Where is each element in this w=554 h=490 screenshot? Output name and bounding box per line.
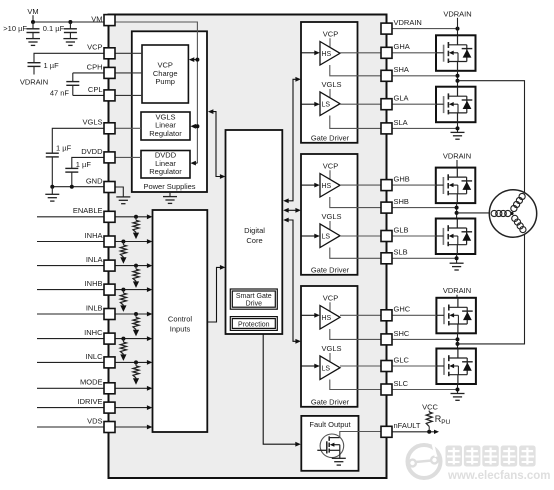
block Gate Driver C <box>301 286 358 407</box>
wire INLC external stub <box>37 361 104 363</box>
wire VM feed to regulators <box>115 22 199 166</box>
label INHA <box>85 231 103 240</box>
wire IDRIVE external stub <box>37 407 104 409</box>
label INHB <box>85 279 103 288</box>
label GLC <box>394 355 410 364</box>
svg-text:SHB: SHB <box>394 197 409 206</box>
svg-text:VM: VM <box>91 15 102 24</box>
label GHB <box>394 175 410 184</box>
label CPH <box>87 62 103 71</box>
wire Digital Core to Fault Output <box>263 334 301 447</box>
wire VGLS stub B <box>329 221 331 230</box>
wire INHC to Control Inputs <box>115 336 152 341</box>
svg-text:SHC: SHC <box>394 329 410 338</box>
wire VCP pin to charge pump <box>115 52 142 54</box>
label VGLS in driver C <box>321 344 341 353</box>
node phase C junction <box>456 333 460 348</box>
watermark elecfans logo and text <box>408 445 551 483</box>
wire HS output to GC <box>340 314 386 316</box>
svg-text:INHA: INHA <box>85 231 103 240</box>
svg-text:GND: GND <box>86 176 103 185</box>
wire VCP stub B <box>329 170 331 180</box>
wire SHA pin to phase A node <box>392 75 458 77</box>
pin INHC <box>104 333 115 344</box>
ground phase B low FET <box>450 254 464 270</box>
svg-text:1 µF: 1 µF <box>76 160 92 169</box>
pin nFAULT <box>381 426 392 437</box>
svg-text:GHB: GHB <box>394 175 410 184</box>
wire SHB pin to phase B node <box>392 207 457 209</box>
wire LS source to SC <box>330 380 386 390</box>
ground phase A low FET <box>451 122 465 139</box>
node phase B junction <box>455 203 459 218</box>
svg-text:VCP: VCP <box>87 43 102 52</box>
wire Control Inputs to Digital Core <box>207 265 225 322</box>
wire nFAULT external <box>392 430 439 434</box>
svg-text:GLC: GLC <box>394 355 410 364</box>
label Gate Driver A <box>311 133 350 142</box>
pin SHC <box>381 334 392 345</box>
svg-text:Fault Output: Fault Output <box>309 420 351 429</box>
svg-text:www.elecfans.com: www.elecfans.com <box>447 470 550 482</box>
pin CPH <box>104 67 115 78</box>
wire VCP stub A <box>329 38 331 48</box>
ground below 0.1 uF cap <box>63 39 77 46</box>
svg-text:VDS: VDS <box>87 416 102 425</box>
svg-text:GHC: GHC <box>394 305 411 314</box>
label GLA <box>394 94 409 103</box>
resistor RPU pull-up <box>426 411 450 432</box>
label nFAULT <box>394 421 421 430</box>
label VCP <box>87 43 102 52</box>
label Gate Driver B <box>311 265 350 274</box>
svg-text:Digital: Digital <box>244 226 265 235</box>
wire INLC to Control Inputs <box>115 360 152 365</box>
svg-text:VGLS: VGLS <box>82 118 102 127</box>
buffer LS A <box>320 92 340 116</box>
wire VDRAIN drop phase B <box>456 160 458 168</box>
wire INHB to Control Inputs <box>115 287 152 292</box>
label DVDD <box>81 147 103 156</box>
label VGLS <box>82 118 102 127</box>
svg-text:IDRIVE: IDRIVE <box>77 397 102 406</box>
svg-text:LS: LS <box>322 366 331 373</box>
label ENABLE <box>73 206 103 215</box>
label VDS <box>87 416 102 425</box>
label VM <box>91 15 102 24</box>
pin MODE <box>104 383 115 394</box>
wire INHA to Control Inputs <box>115 239 152 244</box>
pin INHB <box>104 284 115 295</box>
wire LS input C <box>301 364 320 369</box>
transistor external FET A high-side <box>436 35 476 71</box>
pin VDRAIN <box>381 23 392 34</box>
label CPL <box>88 85 103 94</box>
svg-text:VCP: VCP <box>323 161 338 170</box>
label VDRAIN <box>394 18 422 27</box>
pin GHA <box>381 47 392 58</box>
node VDRAIN label below VCP cap <box>20 78 48 87</box>
svg-text:Regulator: Regulator <box>149 129 182 138</box>
buffer LS C <box>320 356 340 380</box>
pin IDRIVE <box>104 402 115 413</box>
motor three-phase BLDC <box>489 190 536 237</box>
block VCP Charge Pump <box>142 45 188 103</box>
svg-text:MODE: MODE <box>80 378 103 387</box>
svg-text:VGLS: VGLS <box>321 344 341 353</box>
buffer HS C <box>320 306 340 330</box>
label SLB <box>394 248 408 257</box>
svg-text:VGLS: VGLS <box>321 212 341 221</box>
label VDRAIN phase C <box>443 286 471 295</box>
transistor external FET C high-side <box>436 298 476 334</box>
IC body outline <box>109 15 387 479</box>
wire MODE external stub <box>37 387 104 389</box>
svg-text:VGLS: VGLS <box>321 80 341 89</box>
pin INLC <box>104 357 115 368</box>
wire GND external <box>50 185 104 189</box>
label INLC <box>85 352 103 361</box>
svg-text:INLB: INLB <box>86 303 103 312</box>
pin VCP <box>104 48 115 59</box>
capacitor 47 nF between CPH and CPL <box>50 73 79 97</box>
wire HS output to GB <box>340 184 386 186</box>
label GLB <box>394 225 409 234</box>
wire HS output to GA <box>340 52 386 54</box>
wire CPL external <box>73 94 104 96</box>
svg-text:CPH: CPH <box>87 62 103 71</box>
wire LS input A <box>301 102 320 107</box>
wire SHC pin to phase C node <box>392 338 458 340</box>
pin SLC <box>381 384 392 395</box>
svg-text:Pump: Pump <box>155 77 175 86</box>
svg-text:nFAULT: nFAULT <box>394 421 421 430</box>
wire INLB external stub <box>37 313 104 315</box>
svg-text:Power Supplies: Power Supplies <box>143 182 195 191</box>
wire VGLS stub C <box>329 353 331 362</box>
wire INLA external stub <box>37 265 104 267</box>
svg-text:INLC: INLC <box>85 352 103 361</box>
svg-text:LS: LS <box>322 234 331 241</box>
resistor pulldown on INHA <box>120 240 126 264</box>
label Gate Driver C <box>311 397 350 406</box>
svg-text:GLA: GLA <box>394 94 409 103</box>
wire HS source to SC <box>330 329 386 339</box>
svg-text:VDRAIN: VDRAIN <box>443 286 471 295</box>
resistor pulldown on INLC <box>133 360 139 384</box>
block Protection <box>230 317 277 331</box>
wire GLA pin to FET <box>392 103 436 105</box>
label INHC <box>84 328 103 337</box>
svg-text:HS: HS <box>322 315 332 322</box>
wire GHC pin to FET <box>392 314 436 316</box>
wire ENABLE to Control Inputs <box>115 214 152 219</box>
svg-text:VCP: VCP <box>323 29 338 38</box>
ground inside IC at GND pin <box>115 187 130 204</box>
wire DVDD external <box>72 157 104 168</box>
wire phase C to motor <box>458 234 525 344</box>
label VGLS in driver B <box>321 212 341 221</box>
wire DVDD pin to regulator <box>115 156 141 158</box>
label VDRAIN phase B <box>443 152 471 161</box>
svg-text:Gate Driver: Gate Driver <box>311 397 350 406</box>
svg-text:SLA: SLA <box>394 118 408 127</box>
label SLC <box>394 379 409 388</box>
svg-text:Protection: Protection <box>238 322 270 329</box>
wire HS source to SA <box>330 65 386 76</box>
wire VDRAIN drop phase A <box>457 18 459 36</box>
wire GHB pin to FET <box>392 184 436 186</box>
transistor open-drain MOSFET in Fault Output <box>317 432 386 466</box>
svg-text:Control: Control <box>168 314 193 323</box>
label INLA <box>86 255 103 264</box>
svg-text:Gate Driver: Gate Driver <box>311 265 350 274</box>
pin INHA <box>104 236 115 247</box>
svg-text:SHA: SHA <box>394 65 409 74</box>
svg-text:>10 µF: >10 µF <box>3 24 27 33</box>
block Control Inputs <box>153 210 208 432</box>
label VCC <box>422 402 438 411</box>
block DVDD Linear Regulator <box>141 151 190 179</box>
svg-text:VDRAIN: VDRAIN <box>20 78 48 87</box>
pin INLA <box>104 260 115 271</box>
label MODE <box>80 378 103 387</box>
wire VDRAIN pin to FET A <box>392 27 460 31</box>
pin ENABLE <box>104 211 115 222</box>
svg-text:1 µF: 1 µF <box>56 144 72 153</box>
label VDRAIN top <box>443 9 471 18</box>
pin VM <box>104 15 115 26</box>
wire Digital Core to Gate Driver A <box>283 77 301 203</box>
capacitor 1 uF on DVDD <box>65 160 91 187</box>
wire VGLS pin to regulator <box>115 127 141 129</box>
pin CPL <box>104 90 115 101</box>
transistor external FET C low-side <box>436 349 476 385</box>
wire LS output to GC <box>340 365 386 367</box>
wire HS input A <box>301 50 320 55</box>
pin GLA <box>381 99 392 110</box>
label SLA <box>394 118 408 127</box>
block Gate Driver B <box>301 154 358 275</box>
wire LS source to SB <box>330 248 386 259</box>
capacitor 0.1 uF on VM <box>43 22 77 39</box>
pin INLB <box>104 309 115 320</box>
block Power Supplies outline <box>132 31 207 192</box>
node VM supply label <box>27 7 38 22</box>
svg-text:HS: HS <box>322 183 332 190</box>
block Digital Core <box>226 130 283 334</box>
label SHA <box>394 65 409 74</box>
svg-text:LS: LS <box>322 102 331 109</box>
capacitor >10 uF on VM <box>3 22 39 39</box>
svg-text:HS: HS <box>322 51 332 58</box>
svg-text:VM: VM <box>27 7 38 16</box>
wire phase A to motor <box>458 81 525 194</box>
pin GLC <box>381 361 392 372</box>
svg-text:PU: PU <box>441 419 450 426</box>
svg-text:CPL: CPL <box>88 85 103 94</box>
svg-text:VDRAIN: VDRAIN <box>443 9 471 18</box>
wire phase B to motor <box>457 212 490 214</box>
pin GHB <box>381 180 392 191</box>
wire INLB to Control Inputs <box>115 312 152 317</box>
wire SLA pin to ground node <box>392 127 458 129</box>
pin SLA <box>381 123 392 134</box>
resistor pulldown on INHB <box>120 288 126 312</box>
svg-text:Drive: Drive <box>246 301 262 308</box>
wire VDS to Control Inputs <box>115 425 152 430</box>
wire CPH external <box>73 72 104 74</box>
transistor external FET B high-side <box>436 168 476 204</box>
block Gate Driver A <box>301 22 358 143</box>
pin GHC <box>381 310 392 321</box>
wire VM rail <box>31 20 104 24</box>
node phase A junction <box>456 71 460 87</box>
wire ENABLE external stub <box>37 216 104 218</box>
svg-text:INHB: INHB <box>85 279 103 288</box>
wire VGLS external <box>52 128 104 153</box>
svg-text:Gate Driver: Gate Driver <box>311 133 350 142</box>
wire Power Supplies to Digital Core <box>208 109 226 179</box>
wire HS input C <box>301 313 320 318</box>
wire VGLS stub A <box>329 89 331 98</box>
svg-text:INHC: INHC <box>84 328 103 337</box>
label VGLS in driver A <box>321 80 341 89</box>
label IDRIVE <box>77 397 102 406</box>
label VCP in driver A <box>323 29 338 38</box>
ground phase C low FET <box>451 384 465 400</box>
svg-text:VDRAIN: VDRAIN <box>443 152 471 161</box>
svg-text:GHA: GHA <box>394 42 410 51</box>
label SHB <box>394 197 409 206</box>
label GHC <box>394 305 411 314</box>
block VGLS Linear Regulator <box>141 112 190 140</box>
resistor pulldown on ENABLE <box>133 215 139 239</box>
block Smart Gate Drive <box>230 289 277 309</box>
wire LS output to GB <box>340 235 386 237</box>
pin GLB <box>381 231 392 242</box>
label GHA <box>394 42 410 51</box>
wire INHC external stub <box>37 338 104 340</box>
pin VGLS <box>104 123 115 134</box>
capacitor 1 uF on VGLS <box>46 144 72 187</box>
pin VDS <box>104 422 115 433</box>
svg-text:INLA: INLA <box>86 255 103 264</box>
wire Digital Core to Gate Driver B <box>283 208 301 213</box>
wire GHA pin to FET <box>392 52 436 54</box>
svg-text:1 µF: 1 µF <box>44 61 60 70</box>
buffer LS B <box>320 224 340 248</box>
svg-text:GLB: GLB <box>394 225 409 234</box>
wire VCP stub C <box>329 302 331 312</box>
buffer HS B <box>320 174 340 198</box>
wire INHA external stub <box>37 241 104 243</box>
ground below Power Supplies <box>163 192 177 203</box>
capacitor 1 uF on VCP <box>28 61 60 75</box>
svg-text:47 nF: 47 nF <box>50 88 70 97</box>
wire LS output to GA <box>340 103 386 105</box>
transistor external FET B low-side <box>436 219 476 255</box>
label SHC <box>394 329 410 338</box>
wire INLA to Control Inputs <box>115 263 152 268</box>
transistor external FET A low-side <box>436 87 476 123</box>
wire VDS external stub <box>37 426 104 428</box>
wire Digital Core to Gate Driver C <box>283 218 301 344</box>
resistor pulldown on INLB <box>133 312 139 336</box>
label INLB <box>86 303 103 312</box>
svg-text:0.1 µF: 0.1 µF <box>43 24 65 33</box>
svg-text:SLB: SLB <box>394 248 408 257</box>
label VCP in driver B <box>323 161 338 170</box>
svg-text:SLC: SLC <box>394 379 409 388</box>
svg-text:Smart Gate: Smart Gate <box>236 293 272 300</box>
wire INHB external stub <box>37 289 104 291</box>
wire VCP external <box>34 53 104 62</box>
svg-text:DVDD: DVDD <box>81 147 103 156</box>
ground below GND wire <box>45 187 59 201</box>
label GND <box>86 176 103 185</box>
block Fault Output <box>301 416 358 471</box>
svg-text:ENABLE: ENABLE <box>73 206 103 215</box>
ground below >10 uF cap <box>26 39 40 46</box>
resistor pulldown on INLA <box>133 264 139 288</box>
wire GLC pin to FET <box>392 365 436 367</box>
wire CPH pin to charge pump <box>115 72 142 74</box>
svg-text:Regulator: Regulator <box>149 167 182 176</box>
buffer HS A <box>320 42 340 66</box>
wire IDRIVE to Control Inputs <box>115 405 152 410</box>
wire SLB pin to ground node <box>392 257 457 259</box>
label Power Supplies <box>143 182 195 191</box>
svg-text:VCC: VCC <box>422 402 438 411</box>
wire VDRAIN drop phase C <box>456 295 458 298</box>
wire HS input B <box>301 183 320 188</box>
pin DVDD <box>104 152 115 163</box>
wire HS source to SB <box>330 197 386 208</box>
wire LS input B <box>301 234 320 239</box>
svg-text:Inputs: Inputs <box>170 324 191 333</box>
svg-text:VDRAIN: VDRAIN <box>394 18 422 27</box>
svg-text:Core: Core <box>246 236 262 245</box>
wire SLC pin to ground node <box>392 389 458 391</box>
svg-text:VCP: VCP <box>323 293 338 302</box>
wire GLB pin to FET <box>392 235 436 237</box>
pin SHA <box>381 70 392 81</box>
wire LS source to SA <box>330 116 386 129</box>
pin SLB <box>381 253 392 264</box>
wire CPL pin to charge pump <box>115 94 142 96</box>
wire MODE to Control Inputs <box>115 386 152 391</box>
label VCP in driver C <box>323 293 338 302</box>
resistor pulldown on INHC <box>120 337 126 361</box>
pin SHB <box>381 202 392 213</box>
pin GND <box>104 182 115 193</box>
